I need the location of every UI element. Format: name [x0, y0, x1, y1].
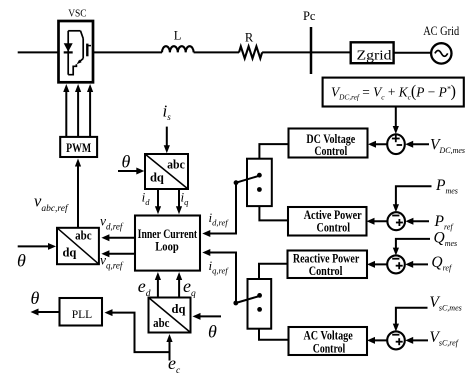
svg-text:dq: dq [172, 302, 186, 316]
wire: SW1 pole to Inner Current Loop (i d,ref) [206, 183, 236, 234]
svg-text:abc: abc [167, 158, 185, 172]
gate wire b PWM to VSC [77, 92, 79, 137]
wire/arrow i s into T2 [166, 127, 168, 147]
svg-text:θ: θ [122, 152, 131, 172]
svg-text:VDC,ref = Vc + Kc(P − P*): VDC,ref = Vc + Kc(P − P*) [331, 82, 456, 102]
wire: formula to summing S1 (arrow down) [395, 107, 397, 128]
svg-text:Loop: Loop [155, 239, 179, 254]
wire: AC Voltage Control to SW2 bottom throw [259, 329, 289, 340]
modulator PWM box [60, 137, 97, 157]
wire: inductor to resistor [194, 51, 239, 53]
svg-text:θ: θ [31, 288, 40, 308]
wire/arrow v d,ref ICL to T1 [105, 237, 135, 239]
wire/arrow e d T3 to ICL [157, 279, 159, 298]
svg-text:abc: abc [75, 228, 92, 242]
wire/arrow S3 to Reactive Power Control [370, 263, 387, 265]
svg-text:ec: ec [168, 353, 181, 376]
svg-text:PWM: PWM [66, 140, 91, 155]
SW1 lever [236, 176, 258, 183]
svg-text:VsC,mes: VsC,mes [429, 294, 461, 313]
svg-text:AC Grid: AC Grid [423, 23, 459, 38]
svg-text:Qref: Qref [431, 254, 453, 273]
controller AC Voltage Control [289, 327, 368, 355]
svg-text:θ: θ [17, 251, 26, 271]
wire: e c branch to PLL [109, 313, 170, 353]
wire/arrow VDC,mes into S1 [408, 143, 429, 145]
SW1 pole contact [234, 180, 239, 185]
wire: resistor to Pc bus [262, 51, 311, 53]
SW1 bottom contact [257, 187, 262, 192]
wire/arrow e q T3 to ICL [178, 279, 180, 298]
svg-text:θ: θ [208, 322, 217, 342]
gate wire a PWM to VSC [65, 92, 67, 137]
droop formula block [323, 78, 464, 107]
gate wire c PWM to VSC [89, 92, 91, 137]
wire: Reactive Power Control to switch SW2 top throw [259, 264, 288, 279]
svg-text:dq: dq [150, 170, 164, 184]
svg-text:Control: Control [313, 341, 346, 355]
inductor L [162, 46, 194, 52]
SW2 pole contact [233, 301, 238, 306]
wire/arrow theta into T3 [196, 315, 221, 317]
svg-text:is: is [163, 102, 172, 123]
wire/arrow i d T2 to ICL [157, 189, 159, 208]
svg-text:vabc,ref: vabc,ref [34, 192, 69, 215]
svg-text:Control: Control [309, 264, 343, 278]
wire/arrow PLL theta output [36, 311, 60, 313]
controller Reactive Power Control [288, 251, 368, 279]
wire/arrow theta into T1 [18, 245, 50, 247]
wire: Zgrid to AC source [394, 52, 432, 54]
svg-text:R: R [245, 31, 254, 45]
wire/arrow P ref into S2 [409, 220, 430, 222]
wire: Pc bus to Zgrid [311, 51, 351, 53]
svg-text:iq,ref: iq,ref [209, 258, 230, 276]
wire/arrow S1 to DC Voltage Control [371, 143, 387, 145]
block PLL [60, 298, 103, 326]
wire/arrow V sC,ref into S4 [408, 339, 428, 341]
summing junction S4 [387, 331, 405, 349]
svg-text:VSC: VSC [68, 9, 86, 20]
svg-text:Control: Control [317, 220, 351, 234]
resistor R [239, 46, 262, 58]
wire: Q mes into S3 [396, 239, 430, 250]
svg-text:id,ref: id,ref [209, 210, 230, 228]
bus bar Pc [310, 27, 313, 74]
wire: VSC to inductor [93, 51, 162, 53]
wire/arrow theta into T2 [118, 170, 138, 172]
wire: Active Power Control to SW1 bottom throw [259, 206, 288, 220]
svg-text:L: L [174, 28, 182, 42]
summing junction S1 [387, 134, 405, 154]
impedance Zgrid [351, 42, 394, 63]
wire/arrow e c into T3 [169, 339, 171, 361]
svg-text:abc: abc [153, 316, 170, 330]
controller DC Voltage Control [289, 129, 368, 158]
svg-text:Pc: Pc [303, 9, 316, 23]
wire/arrow v q,ref ICL to T1 [105, 253, 135, 255]
svg-text:Control: Control [314, 144, 347, 158]
switch SW2 box [248, 279, 272, 329]
svg-text:VsC,ref: VsC,ref [429, 329, 459, 348]
diode D1 (freewheeling, inside VSC) [64, 31, 73, 75]
block Inner Current Loop [135, 216, 200, 271]
wire/arrow Q ref into S3 [408, 263, 428, 265]
svg-text:PLL: PLL [72, 309, 92, 321]
transform T3 abc to dq (voltage measurement) [149, 298, 191, 333]
wire: v abc,ref from transform T1 up to PWM [77, 165, 79, 228]
wire: P mes into S2 [396, 186, 432, 206]
svg-text:vq,ref: vq,ref [100, 253, 124, 271]
svg-text:eq: eq [183, 276, 196, 299]
SW2 top contact [257, 293, 262, 298]
svg-text:dq: dq [62, 246, 76, 260]
transform T1 dq to abc [57, 228, 99, 264]
transistor Q1 IGBT (inside VSC) [68, 31, 91, 75]
svg-text:Qmes: Qmes [434, 230, 458, 249]
summing junction S3 [387, 255, 405, 273]
SW2 lever [236, 297, 258, 304]
transform T2 abc to dq (current measurement) [145, 154, 188, 189]
summing junction S2 [387, 212, 405, 230]
wire/arrow S2 to Active Power Control [370, 220, 388, 222]
svg-text:iq: iq [181, 189, 190, 207]
wire: V sC,mes into S4 [396, 308, 428, 326]
switch SW1 box [247, 159, 272, 206]
svg-text:Pmes: Pmes [435, 177, 458, 196]
wire: DC Voltage Control to switch SW1 top throw [259, 144, 288, 159]
wire/arrow i q T2 to ICL [178, 189, 180, 208]
svg-text:VDC,mes: VDC,mes [430, 136, 465, 155]
svg-text:id: id [142, 189, 151, 207]
svg-text:ed: ed [138, 276, 151, 299]
source G1 AC Grid [431, 43, 451, 63]
svg-text:Zgrid: Zgrid [357, 48, 392, 63]
converter U1 VSC box [59, 21, 94, 82]
SW2 bottom contact [257, 307, 262, 312]
wire: SW2 pole to Inner Current Loop (i q,ref) [206, 253, 236, 304]
wire: AC bus left stub [18, 51, 59, 53]
svg-text:vd,ref: vd,ref [100, 214, 124, 232]
SW1 top contact [257, 173, 262, 178]
controller Active Power Control [288, 207, 367, 236]
wire/arrow S4 to AC Voltage Control [370, 339, 387, 341]
